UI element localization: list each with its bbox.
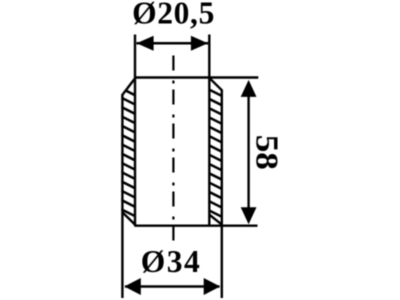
svg-text:58: 58 <box>250 135 285 170</box>
bottom chamfer right <box>209 215 222 225</box>
hatching left wall <box>118 87 140 228</box>
extension / bore line right (x=209.3) <box>208 35 210 226</box>
dimension line 58 (vertical) <box>247 85 249 218</box>
top face line + 58 extension <box>134 76 258 78</box>
arrowhead up (58) <box>241 80 257 97</box>
arrowhead down (58) <box>241 207 257 224</box>
top chamfer right <box>210 78 222 90</box>
top chamfer left <box>122 79 134 95</box>
arrowhead right (Ø34) <box>204 278 221 295</box>
outer edge left + Ø34 extension <box>121 94 123 298</box>
svg-text:Ø34: Ø34 <box>141 244 202 279</box>
arrowhead left (Ø20,5) <box>137 36 154 51</box>
extension / bore line left (x=135) <box>134 35 136 227</box>
arrowhead right (Ø20,5) <box>191 36 208 51</box>
center line (dash-dot) <box>172 56 174 245</box>
hatching right wall <box>205 88 227 229</box>
arrowhead left (Ø34) <box>124 278 141 295</box>
bottom face line + 58 extension <box>135 224 258 226</box>
dimension line Ø20,5 <box>137 42 209 45</box>
svg-text:Ø20,5: Ø20,5 <box>132 0 215 31</box>
outer edge right + Ø34 extension <box>221 90 223 299</box>
bottom chamfer left <box>123 212 136 225</box>
dimension line Ø34 <box>125 285 220 287</box>
